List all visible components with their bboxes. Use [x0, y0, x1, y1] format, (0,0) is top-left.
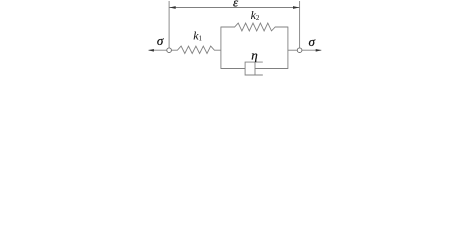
stress arrowhead left: [148, 49, 154, 52]
stress arrowhead right: [316, 49, 322, 52]
svg-text:k1: k1: [193, 29, 202, 43]
spring k2: [221, 23, 288, 31]
svg-text:σ: σ: [157, 33, 164, 48]
dimension line epsilon: [169, 7, 300, 9]
wire block to node B: [288, 49, 297, 51]
spring k1: [171, 46, 221, 53]
svg-text:η: η: [251, 47, 257, 62]
wire block right wall: [287, 27, 289, 69]
svg-text:k2: k2: [251, 8, 260, 22]
node B terminal circle: [297, 48, 302, 53]
dashpot eta cylinder: [245, 62, 263, 75]
wire sigma left shaft: [149, 49, 167, 51]
wire dashpot left lead: [221, 68, 245, 70]
dashpot eta piston: [254, 62, 256, 75]
extension line right (node B to dimension line): [299, 1, 301, 48]
svg-text:σ: σ: [308, 34, 315, 49]
dimension arrowhead right: [293, 6, 299, 9]
svg-text:ε: ε: [233, 0, 239, 9]
node A terminal circle: [167, 48, 172, 53]
wire sigma right shaft: [302, 49, 322, 51]
wire block left wall: [220, 27, 222, 69]
dimension arrowhead left: [169, 6, 175, 9]
wire dashpot piston rod: [255, 68, 288, 70]
extension line left (node A to dimension line): [168, 1, 170, 48]
